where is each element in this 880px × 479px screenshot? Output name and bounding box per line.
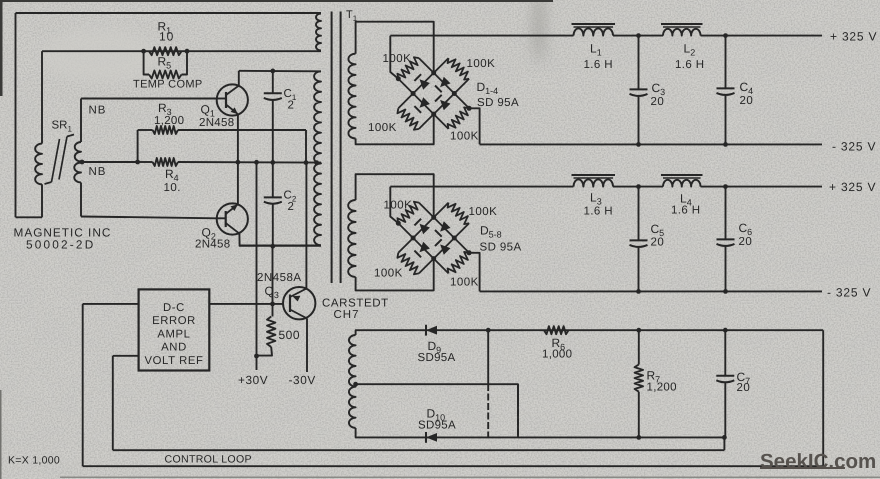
svg-text:TEMP COMP: TEMP COMP <box>133 79 203 91</box>
svg-text:2N458A: 2N458A <box>257 272 302 284</box>
svg-text:1.6 H: 1.6 H <box>584 206 614 218</box>
svg-text:20: 20 <box>651 237 665 249</box>
svg-text:- 325 V: - 325 V <box>827 286 871 300</box>
svg-text:100K: 100K <box>374 268 403 280</box>
svg-text:100K: 100K <box>384 200 413 212</box>
svg-text:10: 10 <box>159 30 174 44</box>
svg-text:+ 325 V: + 325 V <box>830 30 877 44</box>
svg-text:100K: 100K <box>450 277 479 289</box>
svg-text:100K: 100K <box>368 122 397 134</box>
svg-text:500: 500 <box>279 328 301 342</box>
svg-text:20: 20 <box>740 95 754 107</box>
svg-text:SD95A: SD95A <box>418 420 456 432</box>
svg-text:2: 2 <box>288 201 295 213</box>
svg-text:NB: NB <box>89 166 107 178</box>
svg-text:AMPL: AMPL <box>157 328 190 340</box>
svg-text:1,000: 1,000 <box>542 349 572 361</box>
svg-text:SD95A: SD95A <box>418 352 456 364</box>
svg-text:CH7: CH7 <box>334 309 360 321</box>
svg-text:1,200: 1,200 <box>154 115 184 127</box>
svg-text:1.6 H: 1.6 H <box>671 205 701 217</box>
svg-text:D-C: D-C <box>163 302 185 314</box>
svg-text:50002-2D: 50002-2D <box>26 238 95 252</box>
svg-text:+30V: +30V <box>238 373 268 387</box>
svg-text:1.6 H: 1.6 H <box>584 59 614 71</box>
svg-text:K=X 1,000: K=X 1,000 <box>8 455 60 467</box>
svg-text:100K: 100K <box>469 206 498 218</box>
svg-text:+ 325 V: + 325 V <box>829 180 876 194</box>
svg-text:100K: 100K <box>450 131 479 143</box>
svg-text:- 325 V: - 325 V <box>832 140 876 154</box>
svg-text:2: 2 <box>288 100 295 112</box>
svg-text:10.: 10. <box>164 182 182 194</box>
svg-text:100K: 100K <box>383 53 412 65</box>
svg-text:20: 20 <box>651 96 665 108</box>
svg-text:-30V: -30V <box>289 373 316 387</box>
svg-text:SD 95A: SD 95A <box>477 97 519 109</box>
svg-text:VOLT REF: VOLT REF <box>145 355 204 367</box>
svg-text:ERROR: ERROR <box>152 315 196 327</box>
svg-text:2N458: 2N458 <box>195 239 230 251</box>
svg-text:100K: 100K <box>467 58 496 70</box>
svg-text:20: 20 <box>739 236 753 248</box>
svg-text:1.6 H: 1.6 H <box>675 59 705 71</box>
svg-text:20: 20 <box>737 382 751 394</box>
svg-text:CONTROL LOOP: CONTROL LOOP <box>165 454 252 466</box>
svg-text:2N458: 2N458 <box>199 117 234 129</box>
svg-text:AND: AND <box>161 342 187 354</box>
svg-text:NB: NB <box>89 105 107 117</box>
svg-text:CARSTEDT: CARSTEDT <box>322 298 389 310</box>
svg-text:1,200: 1,200 <box>647 382 677 394</box>
svg-text:SD 95A: SD 95A <box>480 242 522 254</box>
